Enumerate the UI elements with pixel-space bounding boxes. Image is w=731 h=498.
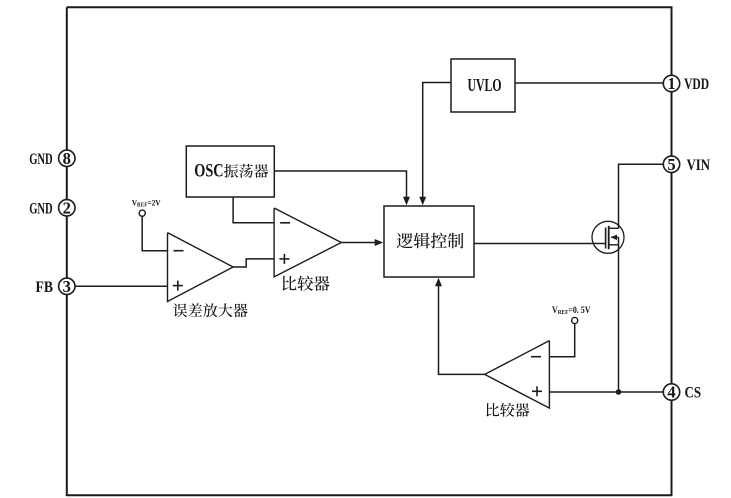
svg-text:CS: CS: [685, 383, 702, 402]
block U2 UVLO: [451, 59, 515, 112]
Q1 drain tap: [609, 227, 619, 229]
svg-text:3: 3: [63, 277, 71, 296]
label 比较器 (comparator): [283, 276, 330, 291]
svg-text:4: 4: [667, 383, 675, 402]
U4 minus input symbol: [531, 356, 541, 358]
junction node CS rail: [616, 389, 622, 395]
U3 plus input symbol vertical: [283, 254, 285, 264]
op-amp U3 comparator triangle: [274, 208, 341, 277]
svg-text:OSC: OSC: [194, 161, 223, 182]
block OSC oscillator: [186, 146, 274, 197]
U1 plus input symbol vertical: [177, 281, 179, 291]
arrowhead U3 into logic: [375, 239, 384, 246]
pin 1 VDD: [663, 74, 679, 93]
svg-text:FB: FB: [36, 277, 54, 296]
terminal Vref=2V open circle: [139, 210, 145, 216]
U4 plus input symbol: [532, 390, 542, 392]
pin 2 GND: [59, 198, 75, 217]
wire VIN pin5 to Q1 drain rail: [619, 164, 664, 228]
Q1 body arrow: [611, 235, 617, 241]
op-amp U4 CS comparator triangle: [485, 341, 550, 409]
Q1 body tap: [611, 236, 619, 238]
label 振荡器 (oscillator): [224, 164, 268, 178]
arrowhead UVLO into logic: [419, 197, 426, 206]
pin 5 VIN: [663, 155, 679, 174]
wire UVLO to VDD pin1: [515, 82, 664, 84]
wire Q1 source rail to CS node: [618, 237, 620, 392]
U3 minus input symbol: [280, 222, 290, 224]
wire U4 output to logic bottom: [439, 286, 485, 374]
U1 plus input symbol: [173, 285, 183, 287]
wire Vref2V stem to U1 minus: [142, 217, 167, 251]
wire OSC output to logic top: [274, 171, 406, 197]
pin 4 CS: [663, 383, 679, 402]
svg-text:UVLO: UVLO: [468, 75, 502, 95]
label 比较器 (CS comparator): [486, 403, 529, 417]
U1 minus input symbol: [174, 250, 184, 252]
label 逻辑控制 (logic control): [397, 233, 464, 249]
svg-text:1: 1: [667, 74, 675, 93]
U4 plus input symbol vertical: [536, 386, 538, 396]
wire Vref0.5V stem to U4 minus: [549, 324, 574, 357]
terminal Vref=0.5V open circle: [572, 317, 578, 323]
wire UVLO to logic top: [423, 83, 451, 198]
svg-text:VDD: VDD: [684, 74, 709, 93]
Q1 gate bar: [605, 228, 607, 249]
svg-text:GND: GND: [29, 149, 53, 168]
label 误差放大器 (error amplifier): [173, 303, 248, 317]
wire logic output to Q1 gate: [474, 243, 605, 245]
wire OSC bottom to U3 minus: [233, 197, 274, 223]
svg-text:VIN: VIN: [687, 155, 711, 174]
transistor Q1 MOSFET body circle: [592, 221, 624, 253]
svg-text:2: 2: [63, 198, 71, 217]
op-amp U1 error amplifier triangle: [168, 233, 234, 302]
wire FB pin3 to U1 plus: [75, 285, 168, 287]
pin 8 GND: [59, 149, 75, 168]
svg-text:GND: GND: [29, 198, 53, 217]
svg-text:VREF=2V: VREF=2V: [132, 198, 162, 209]
block logic control: [384, 206, 474, 277]
Q1 channel bar: [608, 226, 610, 249]
wire U1 output to U3 plus: [233, 259, 274, 267]
Q1 source tap: [609, 244, 619, 246]
pin 3 FB: [59, 277, 75, 296]
arrowhead OSC into logic: [403, 197, 410, 206]
svg-text:5: 5: [667, 155, 675, 174]
wire U3 output to logic left: [341, 242, 375, 244]
wire CS pin4 to U4 plus: [549, 391, 663, 393]
U3 plus input symbol: [279, 258, 289, 260]
arrowhead U4 into logic: [435, 278, 442, 287]
svg-text:8: 8: [63, 149, 71, 168]
